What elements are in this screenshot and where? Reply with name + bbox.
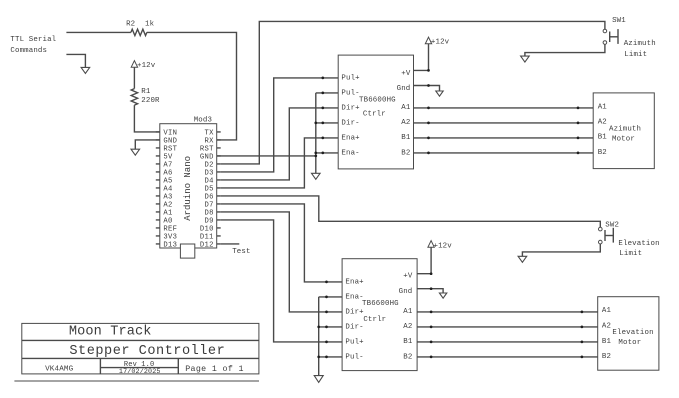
wire R1 to VIN	[134, 105, 159, 132]
wire elevation B2	[417, 356, 598, 358]
svg-text:Mod3: Mod3	[194, 116, 212, 124]
svg-text:B2: B2	[602, 353, 611, 361]
svg-text:3V3: 3V3	[163, 234, 177, 242]
svg-text:A2: A2	[401, 119, 410, 127]
svg-text:SW1: SW1	[612, 17, 626, 25]
power +12v elevation driver	[428, 241, 434, 248]
wire Pul- to ground bus elevation	[319, 356, 342, 358]
svg-text:A0: A0	[163, 218, 172, 226]
svg-text:Elevation: Elevation	[612, 329, 653, 337]
wire D9 to Pul+ elevation	[221, 220, 342, 342]
svg-text:RST: RST	[200, 146, 214, 154]
wire elevation driver ground bus	[318, 297, 320, 376]
svg-text:Ena-: Ena-	[345, 293, 363, 301]
wire Arduino GND to ground	[135, 140, 160, 149]
node pin dots azimuth driver right	[427, 69, 430, 72]
svg-text:Pul-: Pul-	[341, 89, 359, 97]
svg-text:A5: A5	[163, 178, 172, 186]
svg-text:A2: A2	[598, 118, 607, 126]
svg-text:Azimuth: Azimuth	[609, 126, 641, 134]
wire D7 to Ena+ elevation	[221, 204, 342, 282]
wire D12 test point	[221, 243, 240, 245]
svg-text:Dir-: Dir-	[341, 119, 359, 127]
ground TTL serial	[81, 67, 90, 73]
svg-text:GND: GND	[163, 138, 177, 146]
power +12v azimuth driver	[425, 37, 431, 44]
svg-text:A3: A3	[163, 194, 172, 202]
svg-text:R1: R1	[141, 88, 151, 96]
svg-text:B2: B2	[598, 149, 607, 157]
svg-text:GND: GND	[200, 154, 214, 162]
wire elevation B1	[417, 341, 598, 343]
svg-text:Test: Test	[232, 248, 250, 256]
wire SW1 to ground	[525, 44, 605, 56]
svg-text:REF: REF	[163, 226, 177, 234]
svg-text:D6: D6	[204, 194, 213, 202]
wire Gnd azimuth to ground	[414, 86, 440, 92]
switch SW2 actuator	[604, 230, 606, 241]
svg-text:TTL Serial: TTL Serial	[10, 36, 56, 44]
svg-text:A4: A4	[163, 186, 172, 194]
svg-text:A1: A1	[163, 210, 172, 218]
svg-text:Dir+: Dir+	[341, 104, 360, 112]
svg-text:D11: D11	[200, 234, 214, 242]
wire azimuth B2	[414, 152, 594, 154]
svg-text:D12: D12	[200, 242, 214, 250]
svg-text:VIN: VIN	[163, 130, 177, 138]
svg-text:A1: A1	[598, 104, 608, 112]
wire D5 to Ena+ azimuth	[221, 138, 338, 188]
wire Ena- to ground bus elevation	[319, 296, 342, 298]
motor azimuth body	[593, 93, 654, 169]
wire +V azimuth to +12v	[414, 44, 429, 71]
switch SW2 contacts	[599, 227, 603, 231]
svg-text:D3: D3	[204, 170, 213, 178]
power +12v supply left	[131, 61, 137, 68]
wire Arduino GND to driver ground bus	[217, 155, 316, 157]
svg-text:D5: D5	[204, 186, 213, 194]
svg-text:D9: D9	[204, 218, 213, 226]
svg-text:RX: RX	[204, 138, 214, 146]
node junction dots elevation ground bus	[317, 326, 320, 329]
svg-text:D2: D2	[204, 162, 213, 170]
wire D4 to Dir+ azimuth	[221, 108, 338, 180]
svg-text:D10: D10	[200, 226, 214, 234]
svg-text:Pul+: Pul+	[345, 338, 364, 346]
wire elevation A1	[417, 311, 598, 313]
svg-text:5V: 5V	[163, 154, 173, 162]
svg-text:Limit: Limit	[624, 51, 647, 59]
svg-text:Stepper Controller: Stepper Controller	[69, 344, 225, 359]
svg-text:Pul+: Pul+	[341, 74, 360, 82]
wire Arduino pin stubs	[156, 132, 221, 244]
node junction dots azimuth ground bus	[314, 122, 317, 125]
svg-text:Gnd: Gnd	[399, 288, 413, 296]
wire azimuth A2	[414, 122, 594, 124]
svg-text:Dir-: Dir-	[345, 323, 363, 331]
svg-text:B2: B2	[403, 353, 412, 361]
wire Gnd elevation to ground	[417, 289, 443, 293]
node pin dots elevation driver right	[430, 272, 433, 275]
node pin dots azimuth driver left	[321, 77, 324, 80]
wire D8 to Dir+ elevation	[221, 212, 342, 312]
svg-text:Limit: Limit	[619, 250, 642, 258]
svg-text:Elevation: Elevation	[618, 240, 659, 248]
svg-text:Gnd: Gnd	[397, 85, 411, 93]
svg-text:1k: 1k	[145, 21, 155, 29]
svg-text:TX: TX	[204, 130, 214, 138]
wire TTL serial ground return	[66, 54, 85, 67]
wire azimuth driver ground bus	[315, 93, 317, 173]
svg-text:Azimuth: Azimuth	[624, 40, 656, 48]
ground Arduino GND	[131, 149, 140, 155]
svg-text:D8: D8	[204, 210, 213, 218]
node elevation motor wire dots	[430, 311, 433, 314]
svg-text:D7: D7	[204, 202, 213, 210]
svg-text:17/02/2025: 17/02/2025	[119, 368, 161, 376]
wire D6 to SW2	[221, 196, 601, 228]
svg-text:D13: D13	[163, 242, 177, 250]
wire D2 to SW1	[221, 21, 605, 164]
svg-text:Motor: Motor	[618, 339, 641, 347]
svg-text:220R: 220R	[141, 97, 160, 105]
wire elevation A2	[417, 326, 598, 328]
svg-text:B1: B1	[598, 134, 608, 142]
wire +12v to R1	[133, 67, 135, 88]
svg-text:B1: B1	[403, 338, 413, 346]
wire R2 to Arduino RX pin	[147, 32, 237, 139]
svg-text:+V: +V	[401, 70, 411, 78]
ground SW1	[521, 56, 530, 62]
module Mod3 Arduino Nano body	[160, 124, 217, 248]
title block frame	[22, 323, 259, 374]
ground elevation driver	[314, 376, 323, 383]
svg-text:A1: A1	[602, 307, 612, 315]
wire Pul- to ground bus azimuth	[316, 92, 338, 94]
svg-text:A1: A1	[403, 308, 413, 316]
svg-text:Motor: Motor	[612, 136, 635, 144]
svg-text:Ena+: Ena+	[345, 278, 364, 286]
svg-text:Ctrlr: Ctrlr	[363, 111, 386, 119]
wire Ena- to ground bus azimuth	[316, 152, 338, 154]
svg-text:Arduino Nano: Arduino Nano	[183, 156, 193, 221]
wire azimuth A1	[414, 107, 594, 109]
node azimuth motor wire dots	[427, 107, 430, 110]
svg-text:Commands: Commands	[10, 47, 47, 55]
svg-text:TB6600HG: TB6600HG	[362, 300, 399, 308]
node USB connector square	[180, 244, 194, 258]
svg-text:Ctrlr: Ctrlr	[363, 316, 386, 324]
wire D3 to Pul+ azimuth	[221, 78, 338, 172]
svg-text:A1: A1	[401, 104, 411, 112]
svg-text:B1: B1	[602, 338, 612, 346]
wire TTL serial data line to R2	[66, 31, 130, 33]
svg-text:+12v: +12v	[434, 242, 453, 250]
wire SW2 to ground	[522, 244, 600, 257]
svg-text:VK4AMG: VK4AMG	[45, 366, 74, 374]
svg-text:Moon Track: Moon Track	[69, 325, 152, 340]
node pin dots elevation driver left	[325, 281, 328, 284]
motor elevation body	[598, 297, 659, 371]
svg-text:+12v: +12v	[431, 39, 450, 47]
ground azimuth driver Gnd pin	[436, 91, 443, 96]
svg-text:A2: A2	[602, 323, 611, 331]
wire Dir- to ground bus azimuth	[316, 122, 338, 124]
svg-text:TB6600HG: TB6600HG	[359, 97, 396, 105]
svg-text:R2: R2	[126, 21, 135, 29]
driver TB6600HG azimuth Ctrlr body	[338, 55, 413, 169]
svg-text:A6: A6	[163, 170, 172, 178]
svg-text:Dir+: Dir+	[345, 308, 364, 316]
svg-text:A7: A7	[163, 162, 172, 170]
svg-text:SW2: SW2	[605, 221, 619, 229]
ground elevation driver Gnd pin	[439, 293, 446, 298]
resistor R2	[131, 29, 147, 35]
svg-text:+12v: +12v	[137, 62, 156, 70]
svg-text:B1: B1	[401, 134, 411, 142]
svg-text:Ena+: Ena+	[341, 134, 360, 142]
ground azimuth driver	[312, 173, 321, 179]
wire +V elevation to +12v	[417, 247, 431, 273]
wire azimuth B1	[414, 137, 594, 139]
svg-text:RST: RST	[163, 146, 177, 154]
resistor R1	[131, 89, 137, 106]
wire Dir- to ground bus elevation	[319, 326, 342, 328]
svg-text:Page 1 of 1: Page 1 of 1	[185, 364, 244, 374]
wire sheet underline	[14, 380, 259, 382]
svg-text:D4: D4	[204, 178, 213, 186]
switch SW1 actuator	[609, 32, 611, 43]
svg-text:A2: A2	[163, 202, 172, 210]
svg-text:A2: A2	[403, 323, 412, 331]
driver TB6600HG elevation Ctrlr body	[342, 259, 417, 371]
svg-text:+V: +V	[403, 273, 413, 281]
switch SW1 contacts	[603, 29, 607, 33]
svg-text:B2: B2	[401, 149, 410, 157]
ground SW2	[518, 256, 527, 262]
svg-text:Ena-: Ena-	[341, 149, 359, 157]
svg-text:Pul-: Pul-	[345, 353, 363, 361]
